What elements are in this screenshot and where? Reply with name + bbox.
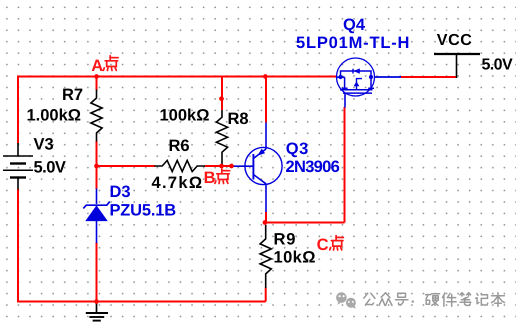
svg-text:D3: D3: [110, 183, 131, 201]
junction dot node C: [263, 220, 268, 225]
svg-text:R8: R8: [228, 110, 249, 128]
svg-text:R6: R6: [169, 137, 190, 155]
wire R8 top stub from net A: [221, 77, 223, 111]
wire bottom ground net: [17, 301, 266, 303]
watermark text: [364, 293, 368, 298]
svg-text:A: A: [91, 57, 103, 75]
wire node A row to R6: [97, 165, 156, 167]
MOSFET Q4 P-channel: [337, 58, 375, 96]
watermark icon: [336, 292, 356, 308]
resistor R9: [260, 225, 271, 288]
svg-text:2N3906: 2N3906: [286, 158, 340, 176]
junction dot node below R7: [94, 164, 99, 169]
transistor Q3 2N3906 PNP: [245, 147, 282, 184]
wire Q3 emitter to net A: [265, 77, 267, 123]
junction dot ground net: [94, 299, 99, 304]
wire left column upper (battery +): [17, 76, 19, 144]
svg-text:R9: R9: [274, 231, 297, 249]
wire Q4 drain to VCC: [401, 76, 457, 78]
wire R6 right to node B: [205, 165, 232, 167]
wire left column lower (battery -): [17, 189, 19, 302]
svg-text:R7: R7: [62, 86, 83, 104]
svg-text:V3: V3: [34, 136, 54, 154]
battery V3: [17, 143, 19, 156]
wire top net A horizontal: [18, 76, 337, 78]
resistor R8: [216, 110, 227, 166]
wire node C vertical to Q4 gate: [344, 107, 346, 223]
wire R9 bottom to ground net: [265, 288, 267, 302]
wire R7 top stub: [96, 77, 98, 91]
wire D3 anode to ground net: [96, 243, 98, 302]
svg-text:5LP01M-TL-H: 5LP01M-TL-H: [296, 34, 410, 52]
svg-text:5.0V: 5.0V: [482, 57, 513, 74]
junction dot emitter / net A: [263, 74, 268, 79]
MOSFET Q4 internals and right pin dot: [369, 75, 373, 79]
svg-text:100kΩ: 100kΩ: [160, 107, 210, 125]
svg-text:Q3: Q3: [286, 140, 309, 158]
junction dots node B: [219, 164, 224, 169]
wire node to D3 cathode: [96, 166, 98, 189]
resistor R6: [155, 160, 206, 171]
svg-text:4.7kΩ: 4.7kΩ: [152, 174, 204, 192]
svg-text:VCC: VCC: [437, 32, 473, 49]
svg-text:5.0V: 5.0V: [34, 159, 66, 177]
power VCC symbol: [434, 53, 480, 55]
svg-text:C: C: [317, 236, 329, 254]
svg-text:Q4: Q4: [343, 16, 366, 34]
svg-text:B: B: [204, 169, 216, 187]
svg-text:1.00kΩ: 1.00kΩ: [27, 107, 82, 125]
node A junction dot: [94, 74, 99, 79]
wire R7 bottom to node: [96, 141, 98, 167]
svg-text:PZU5.1B: PZU5.1B: [110, 202, 177, 220]
Q4 gate pin: [344, 93, 346, 107]
resistor R7: [91, 90, 102, 142]
junction dot R8 pin: [219, 96, 224, 101]
zener diode D3: [96, 189, 98, 205]
wire node C horizontal: [265, 222, 345, 224]
ground symbol: [96, 302, 98, 313]
svg-text:10kΩ: 10kΩ: [274, 249, 316, 267]
wire Q3 collector to node C: [265, 212, 267, 223]
